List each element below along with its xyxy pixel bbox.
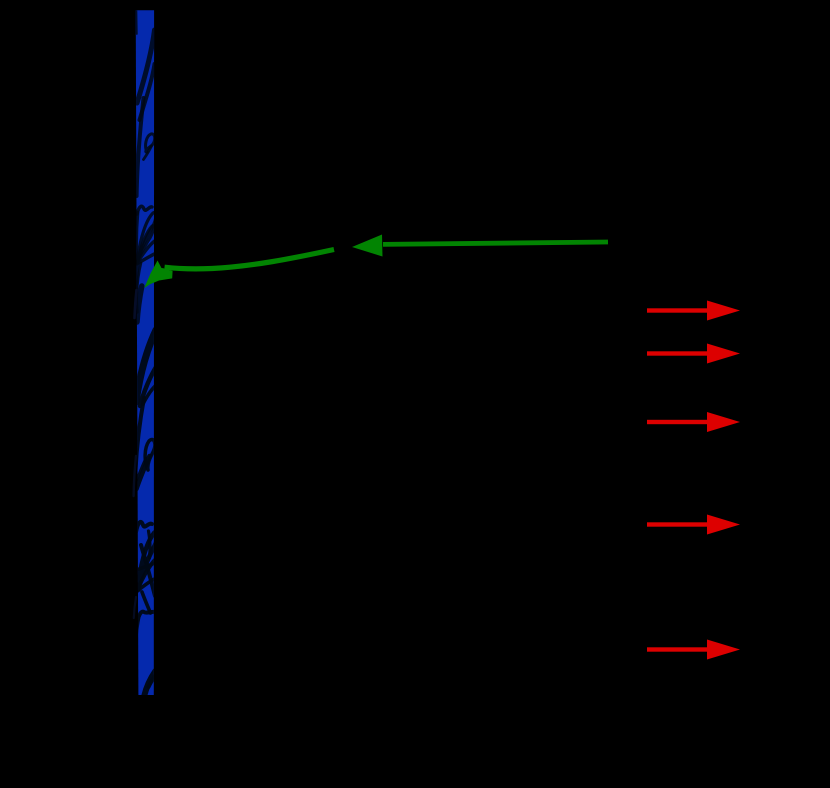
vine stroke: bottom arc [144,671,156,697]
vine stroke: cluster2 bottom tail [142,592,151,613]
vine stroke: small loop at 140 [146,134,155,152]
vine stroke: bottom small arc [149,677,155,688]
vine stroke: diagonal to loop [137,456,150,489]
red arrow 5 [647,640,740,660]
vine stroke: wave top of cluster1 [137,206,152,214]
vine stroke: stem wedge below cluster1 [137,286,142,322]
vine stroke: cluster1 petal D [137,253,157,264]
vine stroke: upper arc 2 [140,64,155,120]
green force arrow: curved segment [165,250,335,269]
vine stroke: stem upper [137,98,144,196]
vine stroke: cluster2 petal A [138,532,157,590]
vine stroke: stem bottom [135,616,139,662]
vine stroke: stem mid [136,262,138,312]
vine stroke: diagonal to loop 2 [136,458,146,483]
vine stroke: cluster1 petal C [137,240,156,263]
vine stroke: cluster2 cross [141,545,155,596]
wall (blue bar) [136,10,154,695]
vine stroke: wave at 612 [136,612,155,626]
vine stroke: top-left edge strip [135,10,137,34]
vine stroke: p-loop at 450 [145,439,155,470]
vine stroke: cluster2 cross slash [135,563,155,571]
red arrow 2 [647,344,740,364]
red arrow 3 [647,412,740,432]
vine stroke: spill left of bar at 300 [135,290,137,318]
red arrow 4 [647,515,740,535]
vine stroke: arc below2 [143,385,156,404]
vine stroke: cluster2 petal C [136,578,157,592]
green force arrow: wall arrowhead [144,261,172,289]
vine stroke: stem lower [136,398,145,470]
vine stroke: cluster1 petal A [137,212,156,263]
vine stroke: stem mid 2 [137,263,141,294]
vine stroke: cluster2 petal B [137,558,157,591]
vine stroke: cluster1 petal B [138,226,154,262]
vine stroke: upper arc 1 [137,30,155,103]
vine stroke: spill left of bar at 600 [134,597,136,618]
vine stroke: big black arc mid [136,330,156,402]
vine stroke: arc below [140,367,156,406]
red arrow 1 [647,301,740,321]
vine stroke: cluster1 left S [137,212,138,262]
vine stroke: cluster2 wave top [136,522,152,532]
vine stroke: loop tail [144,146,152,160]
green force arrow: straight segment [383,242,608,244]
green force arrow: first arrowhead [352,235,383,257]
vine stroke: cluster2 right descender [149,531,151,558]
vine stroke: spill left of bar at 460 [134,456,136,496]
